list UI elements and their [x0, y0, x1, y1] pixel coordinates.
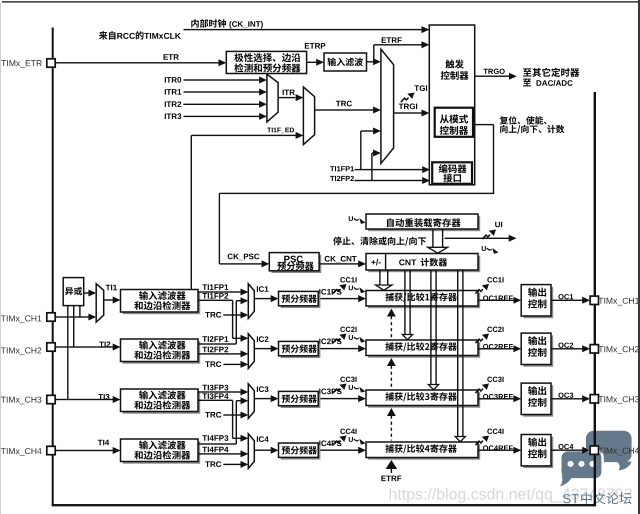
OC2 wire to pin [551, 345, 590, 352]
encoder interface box 编码器接口 [432, 162, 472, 184]
input filter & edge detector box 2 [121, 339, 201, 364]
TGI event arrow [401, 93, 415, 103]
page right border [638, 0, 640, 514]
IC4 label [257, 436, 269, 442]
CC3I flag right [475, 377, 503, 393]
XOR box 异或 [63, 278, 83, 306]
crossover vertical pair rows 1/2 [232, 300, 237, 344]
OC2REF label [483, 344, 513, 349]
TI1FP2 label [202, 293, 228, 299]
ITR0 label [165, 77, 181, 83]
CC1I flag left [333, 277, 357, 293]
capture/compare register 3 box [366, 390, 480, 408]
TIMx_CH4 output pin [590, 446, 598, 454]
hollow arrow ARR to CNT [428, 229, 448, 253]
IC1PS wire [318, 295, 366, 302]
UI label [495, 222, 502, 228]
ITR2 label [165, 101, 181, 107]
TI2 wire [55, 344, 120, 351]
TI1F_ED riser [191, 135, 192, 289]
CC4I flag left [333, 429, 357, 445]
OC2 label [558, 343, 573, 348]
TI1FP1 wire [198, 289, 248, 296]
TI4FP3 label [202, 435, 228, 441]
ETRF label [382, 37, 402, 43]
U event into CC1 [349, 285, 366, 293]
CNT to CC1 hollow arrow [376, 270, 392, 290]
ITR wire [278, 94, 303, 101]
IC4PS wire [318, 447, 366, 454]
csdn forum logo [560, 431, 632, 487]
OC4 label [558, 444, 573, 449]
OC3 wire to pin [551, 395, 590, 402]
polarity/edge-detector/prescaler box 极性选择、边沿检测和预分频器 [226, 51, 306, 73]
TIMx_CH1 output pin [590, 296, 598, 304]
crossover input wire from row 4 [236, 397, 248, 404]
TRC stub wire row 3 [223, 412, 248, 419]
TI2FP2 wire [198, 350, 248, 357]
ETRF wire to TRGI mux [367, 58, 381, 65]
input filter & edge detector box 4 [121, 439, 201, 464]
ITR3 label [165, 113, 182, 119]
CH1 wire to TI1 mux [55, 314, 96, 321]
capture/compare register 4 box [366, 442, 480, 460]
U event into CC3 [349, 385, 366, 393]
TI2FP2 riser to TRGI mux [371, 150, 381, 181]
TRC label row 1 [205, 312, 221, 318]
CNT to CC2 hollow arrow [402, 270, 412, 340]
ETRP label [305, 43, 326, 49]
ETRP wire [307, 59, 324, 66]
IC3 wire [254, 395, 278, 402]
XOR output wire [84, 290, 97, 297]
trigger controller box 触发控制器 [429, 25, 474, 185]
CK_CNT label [325, 256, 357, 263]
TGI label [414, 85, 427, 91]
ETR wire [55, 59, 226, 66]
stop/clear wire [445, 235, 517, 242]
XOR input riser from CH2 [73, 306, 74, 347]
TI1FP1 riser to TRGI mux [360, 128, 381, 170]
CC4I flag right [475, 429, 503, 445]
label 至其它定时器 至DAC/ADC [523, 68, 579, 86]
IC1 label [257, 286, 269, 292]
ITR label [283, 90, 295, 96]
prescaler box row 3 预分频器 [279, 391, 321, 408]
CC1I flag right [475, 277, 503, 293]
TI1 mux [96, 284, 104, 322]
XOR input riser from CH3 [67, 306, 68, 400]
input filter box 输入滤波 [324, 53, 367, 71]
TI4FP4 wire [198, 450, 248, 457]
TIMx_CH3 input pin [47, 395, 55, 403]
U event below stop line [482, 246, 499, 254]
crossover input wire from row 3 [233, 435, 249, 442]
TI3FP4 wire (to next row) [198, 400, 233, 401]
TIMx_CH3 left label [1, 397, 42, 405]
CNT counter box [366, 254, 480, 273]
ITR3 wire [184, 113, 267, 120]
prescaler box row 2 预分频器 [279, 341, 321, 358]
TIMx_CH3 output pin [590, 395, 598, 403]
ETRF wire to trigger controller [374, 41, 430, 48]
watermark ST forum text [563, 492, 631, 504]
UI event arrow [482, 230, 496, 240]
IC2PS wire [318, 345, 366, 352]
CNT 计数器 label [399, 258, 447, 266]
watermark url text [390, 488, 632, 503]
TI3FP3 wire [198, 389, 248, 396]
OC3REF wire [478, 395, 521, 402]
TI4FP3 wire (to prev row) [198, 443, 236, 444]
IC4 wire [254, 447, 278, 454]
capture/compare register 1 box [366, 291, 480, 309]
OC1REF wire [478, 297, 521, 304]
input filter & edge detector box 1 [121, 290, 201, 315]
TRGI wire [394, 110, 430, 117]
TI1F_ED label [267, 128, 294, 134]
TIMx_CH3 right label [598, 396, 639, 404]
label 复位、使能、向上/向下、计数 [500, 116, 565, 134]
output control box 1 输出控制 [521, 285, 553, 319]
page top border [2, 1, 638, 3]
output control box 2 输出控制 [521, 333, 553, 367]
TI2FP1 wire (to prev row) [198, 343, 236, 344]
IC2 mux [248, 334, 254, 369]
OC4REF wire [478, 447, 521, 454]
TI3 label [98, 394, 109, 400]
OC4 wire to pin [551, 447, 590, 454]
TRGI mux [381, 49, 394, 163]
IC4PS label [319, 441, 341, 447]
TRC mux [303, 87, 314, 145]
ETRF label at bottom [381, 476, 401, 482]
OC4REF label [483, 445, 513, 450]
TIMx_ETR pin label [1, 60, 42, 68]
chip boundary bottom [52, 504, 596, 506]
IC2PS label [319, 339, 341, 345]
IC1 wire [254, 295, 278, 302]
ETRF branch riser [373, 45, 374, 62]
TI4 wire [55, 447, 120, 454]
CNT to CC3 hollow arrow [428, 270, 438, 390]
CK_PSC label [228, 254, 260, 261]
TI1F_ED wire [191, 132, 303, 139]
TIMx_CH2 left label [1, 347, 41, 355]
ETR label [164, 54, 179, 60]
label 停止、清除或向上/向下 [333, 237, 426, 246]
U event into CC2 [349, 335, 366, 343]
TIMx_CH4 input pin [47, 446, 55, 454]
OC1 label [558, 294, 573, 299]
TI2 label [99, 342, 110, 348]
OC3REF label [483, 394, 513, 399]
TI1FP1 label [330, 166, 354, 171]
TI4 label [98, 440, 109, 446]
capture/compare register 2 box [366, 340, 480, 358]
TI2FP2 label [202, 347, 228, 353]
output control box 3 输出控制 [521, 383, 553, 417]
OC1 wire to pin [551, 297, 590, 304]
XOR input riser from CH1 [79, 306, 80, 317]
TRC stub wire row 1 [223, 312, 248, 319]
CC2I flag right [475, 327, 503, 343]
TRGO wire [475, 73, 517, 80]
prescaler box row 1 预分频器 [279, 291, 321, 308]
OC2REF wire [478, 345, 521, 352]
ITR1 label [165, 89, 182, 95]
crossover vertical pair rows 3/4 [232, 400, 237, 444]
TIMx_CH2 right label [598, 346, 638, 354]
TRC label row 2 [205, 361, 221, 367]
TIMx_CH4 right label [598, 448, 639, 456]
IC1PS label [319, 289, 341, 295]
TI1FP1 label [202, 284, 228, 290]
IC3 label [257, 386, 269, 392]
TI1 label [106, 285, 117, 291]
IC3PS label [319, 389, 341, 395]
label 内部时钟 (CK_INT) [191, 19, 263, 28]
TRC label row 3 [205, 412, 221, 418]
PSC prescaler box [269, 253, 321, 273]
TIMx_CH2 output pin [590, 345, 598, 353]
TIMx_CH1 left label [1, 315, 41, 323]
internal clock CK_INT line [184, 26, 430, 33]
IC3PS wire [318, 395, 366, 402]
TRGI label [399, 104, 417, 110]
ITR1 wire [184, 89, 267, 96]
ITR mux [267, 74, 278, 122]
TI1 wire [104, 297, 121, 304]
CC3I flag left [333, 377, 357, 393]
crossover input wire from row 2 [236, 297, 248, 304]
input filter & edge detector box 3 [121, 389, 201, 414]
TIMx_CH1 right label [598, 298, 638, 306]
TI4FP4 label [202, 447, 228, 453]
CK_CNT wire [319, 260, 366, 267]
U event into CC4 [349, 437, 366, 445]
TRC label [336, 101, 352, 107]
TI1FP2 wire (to next row) [198, 300, 233, 301]
TRGO label [483, 69, 504, 74]
IC1 mux [248, 284, 254, 319]
slave mode controller box 从模式控制器 [435, 108, 473, 137]
TRC wire to TRGI mux [315, 107, 381, 114]
chip boundary right bus [594, 92, 596, 506]
TI3 wire [55, 396, 120, 403]
TI3FP4 label [202, 393, 228, 399]
ITR2 wire [184, 101, 267, 108]
label 来自RCC的TIMxCLK [99, 31, 181, 39]
TIMx_CH2 input pin [47, 343, 55, 351]
auto-reload register box 自动重装载寄存器 [366, 214, 480, 231]
TRC label row 4 [205, 461, 221, 467]
page left border [0, 2, 1, 514]
TI3FP3 label [202, 385, 228, 391]
U event into ARR [349, 216, 366, 224]
output control box 4 输出控制 [521, 435, 553, 469]
OC1REF label [483, 295, 513, 300]
TRC stub wire row 2 [223, 361, 248, 368]
IC2 label [257, 336, 269, 342]
CNT to CC4 hollow arrow [455, 270, 465, 442]
TIMx_CH4 left label [1, 448, 42, 456]
TI1FP1 wire to encoder [355, 166, 431, 173]
crossover input wire from row 1 [233, 335, 249, 342]
chip boundary left bus [52, 28, 54, 506]
TIMx_CH1 input pin [47, 313, 55, 321]
prescaler box row 4 预分频器 [279, 443, 321, 460]
TI2FP1 label [202, 336, 228, 342]
TIMx_ETR pin [47, 59, 55, 67]
CC2I flag left [333, 327, 357, 343]
slave-mode routing wire to prescaler clock [219, 124, 495, 268]
ITR0 wire [184, 77, 267, 84]
IC4 mux [248, 434, 254, 469]
capture trigger dashed line with up arrows [386, 309, 398, 474]
TI2FP2 wire to encoder [355, 177, 431, 184]
TRC stub wire row 4 [223, 461, 248, 468]
IC3 mux [248, 384, 254, 419]
TI2FP2 label [330, 176, 354, 181]
IC2 wire [254, 345, 278, 352]
OC3 label [558, 393, 573, 398]
